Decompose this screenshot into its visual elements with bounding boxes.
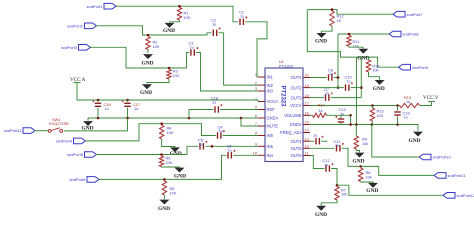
svg-text:PT2323: PT2323: [280, 85, 286, 107]
svg-text:sndPort2: sndPort2: [67, 23, 84, 28]
svg-text:GND: GND: [174, 174, 186, 180]
svg-text:IN3: IN3: [267, 89, 274, 94]
svg-text:OUT3: OUT3: [291, 95, 303, 100]
svg-text:1u: 1u: [329, 71, 333, 76]
svg-text:sndPort11: sndPort11: [4, 128, 23, 133]
svg-text:11: 11: [305, 152, 309, 156]
svg-text:GNDA: GNDA: [267, 116, 279, 121]
svg-text:14: 14: [305, 129, 309, 133]
svg-text:IN1: IN1: [267, 75, 274, 80]
svg-text:R14: R14: [318, 103, 326, 108]
svg-text:sndPort3: sndPort3: [61, 45, 78, 50]
svg-text:1u: 1u: [340, 111, 344, 116]
svg-text:20: 20: [305, 74, 309, 78]
svg-text:GND: GND: [158, 206, 170, 212]
svg-text:VCCV: VCCV: [290, 103, 302, 108]
svg-text:VOLUME: VOLUME: [284, 113, 302, 118]
svg-text:REF: REF: [267, 107, 276, 112]
svg-text:GND: GND: [409, 138, 421, 144]
svg-text:PT2323: PT2323: [279, 64, 294, 69]
svg-text:1u: 1u: [240, 14, 244, 19]
svg-text:1u: 1u: [313, 133, 317, 138]
svg-text:VCC V: VCC V: [423, 95, 439, 101]
svg-text:sndPort8: sndPort8: [403, 32, 420, 37]
svg-text:GND: GND: [373, 86, 385, 92]
svg-text:10k: 10k: [362, 141, 368, 146]
svg-text:OUT4: OUT4: [291, 139, 303, 144]
svg-text:sndPort5: sndPort5: [67, 152, 84, 157]
svg-text:10K: 10K: [184, 15, 191, 20]
svg-text:10K: 10K: [167, 130, 174, 135]
svg-text:1u: 1u: [199, 141, 203, 146]
svg-text:10k: 10k: [366, 174, 372, 179]
svg-text:1u: 1u: [134, 106, 138, 111]
svg-text:10K: 10K: [170, 190, 177, 195]
svg-text:OUT2: OUT2: [291, 85, 303, 90]
svg-text:1k: 1k: [319, 108, 323, 113]
svg-text:GND: GND: [366, 188, 378, 194]
svg-text:1u: 1u: [228, 147, 232, 152]
svg-text:sndPort11: sndPort11: [448, 173, 467, 178]
svg-text:IN4: IN4: [267, 153, 274, 158]
svg-text:1K: 1K: [337, 18, 342, 23]
svg-text:GND: GND: [315, 212, 327, 218]
svg-text:1u: 1u: [325, 91, 329, 96]
svg-text:sndPort12: sndPort12: [457, 193, 474, 198]
svg-text:sndPort10: sndPort10: [433, 155, 452, 160]
svg-text:GND: GND: [353, 159, 365, 165]
svg-text:10K: 10K: [173, 73, 180, 78]
svg-text:sndPort9: sndPort9: [412, 65, 429, 70]
svg-text:sndPort4: sndPort4: [56, 139, 73, 144]
svg-text:1u: 1u: [347, 79, 351, 84]
svg-text:IN5: IN5: [267, 144, 274, 149]
svg-text:GND: GND: [163, 28, 175, 34]
svg-text:EVQ2705R: EVQ2705R: [49, 121, 69, 126]
svg-text:1u: 1u: [105, 106, 109, 111]
svg-text:GND: GND: [357, 55, 369, 61]
svg-text:GNDV: GNDV: [290, 122, 302, 127]
svg-text:MUTE: MUTE: [267, 124, 279, 129]
svg-text:GND: GND: [140, 90, 152, 96]
svg-text:GND: GND: [142, 61, 154, 67]
svg-text:19: 19: [305, 84, 309, 88]
svg-text:1u: 1u: [190, 45, 194, 50]
svg-text:IN6: IN6: [267, 133, 274, 138]
svg-text:10K: 10K: [153, 44, 160, 49]
svg-text:GND: GND: [315, 39, 327, 45]
svg-text:sndPort6: sndPort6: [69, 177, 86, 182]
svg-text:OUT5: OUT5: [291, 146, 303, 151]
svg-text:OUT1: OUT1: [291, 75, 303, 80]
svg-text:1u: 1u: [212, 22, 216, 27]
svg-text:10k: 10k: [372, 68, 378, 73]
svg-text:13: 13: [305, 137, 309, 141]
svg-text:VCCA: VCCA: [267, 99, 279, 104]
svg-text:sndPort1: sndPort1: [86, 4, 103, 9]
svg-text:FREQ_ADJ: FREQ_ADJ: [280, 130, 301, 135]
svg-text:1u: 1u: [404, 115, 408, 120]
svg-text:sndPort7: sndPort7: [407, 12, 424, 17]
svg-text:10k: 10k: [341, 192, 347, 197]
svg-text:16: 16: [305, 112, 309, 116]
svg-text:1u: 1u: [335, 143, 339, 148]
svg-text:100: 100: [377, 113, 384, 118]
svg-text:18: 18: [305, 94, 309, 98]
svg-text:12: 12: [305, 145, 309, 149]
svg-text:1u: 1u: [324, 162, 328, 167]
svg-text:OUT6: OUT6: [291, 153, 303, 158]
svg-text:17: 17: [305, 102, 309, 106]
svg-text:IN2: IN2: [267, 83, 274, 88]
svg-text:1u: 1u: [219, 128, 223, 133]
svg-text:1u: 1u: [212, 99, 216, 104]
svg-text:1k: 1k: [406, 99, 410, 104]
svg-text:10K: 10K: [166, 160, 173, 165]
svg-text:15: 15: [305, 121, 309, 125]
